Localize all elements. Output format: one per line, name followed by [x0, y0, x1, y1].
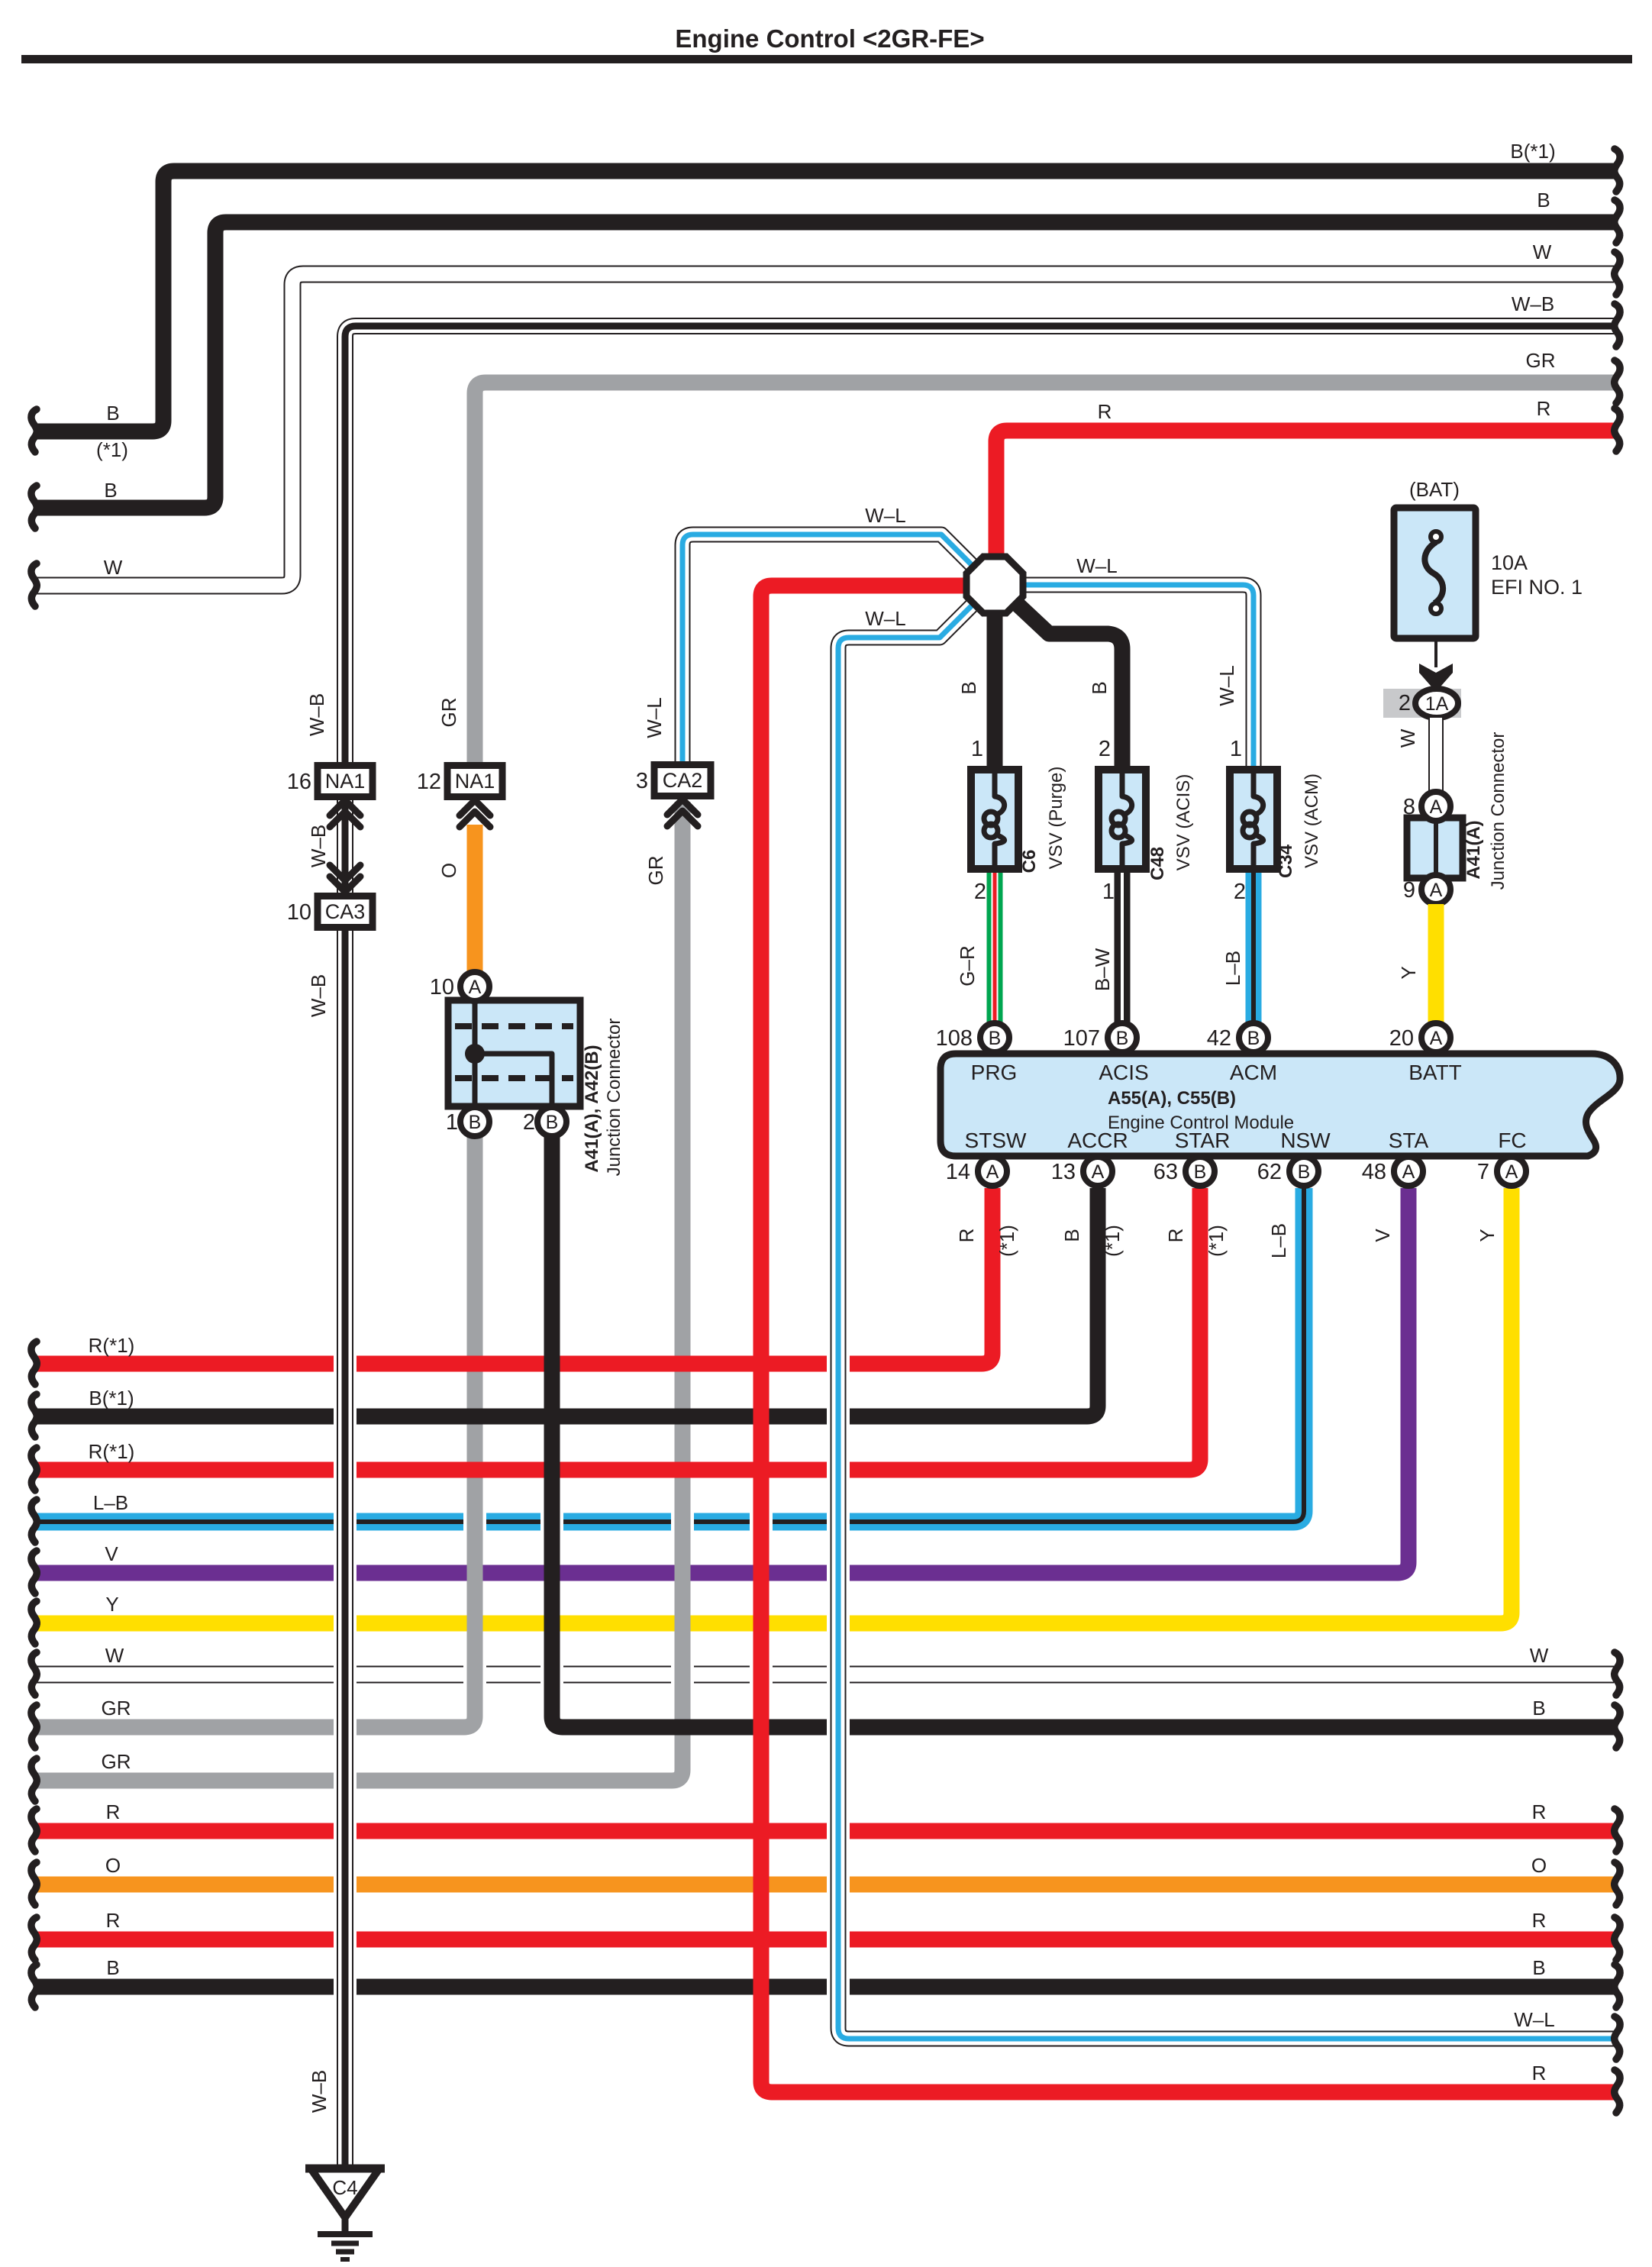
- label R(*1) left 2: [89, 1440, 135, 1463]
- wire R top from right edge into octagon: [996, 431, 1614, 565]
- svg-text:STAR: STAR: [1175, 1129, 1231, 1152]
- svg-text:W–L: W–L: [865, 504, 905, 527]
- label R(*1) left 1: [89, 1334, 135, 1357]
- label A41(A) A42(B) rotated: [582, 1045, 602, 1172]
- connector NA1 pin 12: [447, 766, 502, 797]
- svg-text:NA1: NA1: [455, 770, 495, 793]
- wire W-B from right edge to ground C4: [345, 326, 1614, 2167]
- junction A41 pin 8 circle: [1421, 792, 1450, 821]
- wire G-R from VSV Purge pin 2 to ECM pin 108: [987, 873, 1003, 1027]
- break squiggle right y=2540: [1615, 1917, 1620, 1960]
- junction octagon node: [966, 557, 1023, 613]
- label W left bottom: [105, 1644, 124, 1667]
- label GR right: [1526, 349, 1556, 372]
- svg-text:1: 1: [1102, 880, 1115, 904]
- label R right 1: [1532, 1800, 1547, 1823]
- ECM pin 108 B: [980, 1023, 1009, 1052]
- svg-text:W–L: W–L: [1215, 665, 1238, 706]
- svg-text:ACM: ACM: [1230, 1061, 1277, 1084]
- wire B(*1) from ACCR pin 13 to left edge: [35, 1188, 1098, 1416]
- wire GR from connector CA2 to left edge: [35, 802, 682, 1781]
- wire R full width lower: [35, 1823, 1614, 1839]
- svg-text:16: 16: [287, 770, 311, 794]
- title text: [675, 24, 984, 53]
- label W-B rotated 2: [307, 825, 330, 867]
- label L-B rotated pin62: [1267, 1223, 1290, 1258]
- pin number 107: [1063, 1026, 1100, 1051]
- svg-text:(*1): (*1): [1205, 1225, 1228, 1257]
- label W-L rotated C34: [1215, 665, 1238, 706]
- wire W full width: [35, 1666, 1614, 1684]
- wire B from junction A41 pin 2B to right edge: [552, 1137, 1614, 1727]
- break squiggle right y=2740: [1615, 2070, 1620, 2113]
- wire Y from junction A41 pin 9 to ECM pin 20: [1428, 904, 1444, 1027]
- connector CA3 pin 10: [318, 896, 373, 928]
- svg-text:1: 1: [1230, 737, 1242, 761]
- break squiggle left y=2540: [31, 1917, 37, 1960]
- ground C4: [305, 2169, 385, 2259]
- svg-text:FC: FC: [1498, 1129, 1526, 1152]
- pin number 8: [1403, 795, 1415, 819]
- pin number 42: [1207, 1026, 1231, 1051]
- svg-text:R: R: [1532, 1800, 1547, 1823]
- label B right bottom: [1532, 1697, 1545, 1720]
- svg-text:B: B: [957, 681, 980, 694]
- label B-W rotated: [1091, 948, 1114, 991]
- svg-text:9: 9: [1403, 878, 1415, 903]
- break squiggle left y=665: [31, 486, 37, 528]
- svg-text:W: W: [1530, 1644, 1549, 1667]
- label R rotated pin63: [1164, 1229, 1187, 1243]
- svg-text:C34: C34: [1276, 844, 1296, 878]
- svg-text:2: 2: [974, 880, 986, 904]
- svg-text:W: W: [1396, 728, 1419, 748]
- svg-text:O: O: [437, 863, 460, 878]
- label B(*1) left: [89, 1387, 134, 1410]
- wire B(*1) top: [35, 171, 1614, 431]
- label A41(A) rotated: [1463, 820, 1484, 879]
- break squiggle left y=2398: [31, 1809, 37, 1852]
- svg-text:A: A: [1505, 1161, 1518, 1183]
- svg-text:CA2: CA2: [663, 769, 703, 792]
- label B right 2: [1532, 1956, 1545, 1979]
- svg-text:63: 63: [1153, 1160, 1178, 1184]
- svg-text:62: 62: [1257, 1160, 1282, 1184]
- label GR rotated top: [437, 698, 460, 728]
- ECM label NSW: [1280, 1129, 1331, 1152]
- wire R full width bottom: [35, 1932, 1614, 1948]
- svg-text:W–L: W–L: [643, 697, 666, 738]
- svg-text:W–B: W–B: [308, 2070, 331, 2113]
- svg-text:R: R: [106, 1800, 121, 1823]
- label C48 rotated: [1147, 847, 1168, 880]
- svg-text:B: B: [106, 402, 119, 425]
- white casing at GR CA2 wire crossings: [671, 1510, 694, 1687]
- wire B full width bottom: [35, 1979, 1614, 1995]
- pin number 1 A41: [446, 1110, 458, 1135]
- svg-text:A55(A), C55(B): A55(A), C55(B): [1108, 1088, 1236, 1109]
- label (*1) rotated pin13: [1101, 1225, 1124, 1257]
- svg-text:B: B: [1088, 681, 1111, 694]
- svg-text:A: A: [1092, 1161, 1105, 1183]
- svg-text:A: A: [1430, 1028, 1443, 1049]
- svg-text:14: 14: [946, 1160, 970, 1184]
- svg-text:W: W: [1533, 241, 1552, 263]
- svg-text:1A: 1A: [1425, 693, 1449, 715]
- svg-text:W–B: W–B: [307, 825, 330, 867]
- label C6 rotated: [1019, 850, 1040, 874]
- break squiggle right y=291: [1615, 200, 1620, 243]
- svg-text:B: B: [1060, 1229, 1083, 1242]
- break squiggle left y=1993: [31, 1500, 37, 1542]
- junction A41 pin 9 circle: [1421, 875, 1450, 904]
- VSV C6 pin 1 number: [971, 737, 983, 761]
- ECM name A55(A), C55(B): [1108, 1088, 1236, 1109]
- label R mid top: [1098, 400, 1112, 423]
- pin number 9: [1403, 878, 1415, 903]
- wire R from octagon junction to bottom right edge: [761, 586, 1614, 2092]
- svg-text:V: V: [1371, 1229, 1394, 1242]
- svg-text:A: A: [1430, 880, 1443, 901]
- svg-text:8: 8: [1403, 795, 1415, 819]
- svg-text:B: B: [1298, 1161, 1311, 1183]
- wire L-B from NSW pin 62 to left edge: [35, 1188, 1304, 1522]
- svg-text:B: B: [1194, 1161, 1207, 1183]
- svg-text:A: A: [469, 977, 482, 998]
- VSV C34 pin 1 number: [1230, 737, 1242, 761]
- break squiggle right y=2670: [1615, 2017, 1620, 2059]
- wire Y from FC pin 7 to left edge: [35, 1188, 1512, 1623]
- label W-B rotated 3: [307, 974, 330, 1017]
- label R right bottom: [1532, 2062, 1547, 2085]
- wire R(*1) from STAR pin 63 to left edge: [35, 1188, 1200, 1470]
- fuse 10A EFI NO.1: [1394, 508, 1476, 638]
- ECM label STSW: [965, 1129, 1027, 1152]
- svg-text:L–B: L–B: [1221, 951, 1244, 986]
- svg-text:B: B: [469, 1112, 482, 1133]
- svg-text:Engine Control <2GR-FE>: Engine Control <2GR-FE>: [675, 24, 984, 53]
- label Y rotated pin7: [1476, 1229, 1499, 1242]
- svg-text:R: R: [1537, 397, 1551, 420]
- ECM name Engine Control Module: [1108, 1113, 1294, 1133]
- svg-text:R: R: [1532, 2062, 1547, 2085]
- label W-L lower: [865, 607, 905, 630]
- svg-text:W: W: [104, 556, 123, 579]
- ECM label ACCR: [1067, 1129, 1128, 1152]
- break squiggle left y=1786: [31, 1342, 37, 1384]
- ECM pin 7 A: [1497, 1157, 1526, 1186]
- label W-B right: [1512, 292, 1554, 315]
- svg-text:48: 48: [1362, 1160, 1386, 1184]
- ECM label FC: [1498, 1129, 1526, 1152]
- svg-text:B(*1): B(*1): [89, 1387, 134, 1410]
- label GR left 2: [102, 1750, 131, 1773]
- pin number 7: [1477, 1160, 1489, 1184]
- chevron arrow below NA1 16: [330, 800, 360, 827]
- pin number 10 A41: [430, 975, 454, 999]
- break squiggle left y=1855: [31, 1394, 37, 1437]
- svg-text:BATT: BATT: [1408, 1061, 1461, 1084]
- svg-text:A41(A), A42(B): A41(A), A42(B): [582, 1045, 602, 1172]
- label W-L right of octagon: [1076, 554, 1117, 577]
- svg-text:Y: Y: [105, 1593, 118, 1616]
- VSV (Purge) C6: [971, 770, 1018, 869]
- pin number 13: [1051, 1160, 1076, 1184]
- svg-text:B–W: B–W: [1091, 948, 1114, 991]
- ECM pin 42 B: [1239, 1023, 1268, 1052]
- svg-text:W: W: [105, 1644, 124, 1667]
- VSV (ACM) C34: [1230, 770, 1277, 869]
- svg-text:2: 2: [523, 1110, 535, 1135]
- label W left: [104, 556, 123, 579]
- wire W from connector 1A to junction A41 pin 8: [1428, 718, 1444, 792]
- VSV C48 pin 2 number: [1099, 737, 1111, 761]
- ECM label ACIS: [1099, 1061, 1148, 1084]
- label B left 2: [104, 479, 117, 502]
- svg-text:12: 12: [417, 770, 441, 794]
- svg-text:W–B: W–B: [307, 974, 330, 1017]
- wire O from junction A41 pin 10A to NA1 12: [467, 825, 483, 972]
- svg-text:O: O: [105, 1854, 121, 1877]
- label W right: [1533, 241, 1552, 263]
- label EFI NO. 1: [1491, 576, 1583, 599]
- svg-text:STA: STA: [1389, 1129, 1429, 1152]
- svg-text:13: 13: [1051, 1160, 1076, 1184]
- wire B from octagon to VSV ACIS pin 2: [1013, 600, 1122, 767]
- svg-text:Y: Y: [1397, 966, 1420, 979]
- ECM label ACM: [1230, 1061, 1277, 1084]
- break squiggle right y=501: [1615, 360, 1620, 403]
- label Y left: [105, 1593, 118, 1616]
- label GR rotated CA2: [644, 856, 667, 886]
- label W-L rotated: [643, 697, 666, 738]
- pin number 63: [1153, 1160, 1178, 1184]
- VSV C48 pin 1 number: [1102, 880, 1115, 904]
- label R right: [1537, 397, 1551, 420]
- break squiggle left y=2262: [31, 1705, 37, 1748]
- svg-text:W–L: W–L: [1076, 554, 1117, 577]
- break squiggle right y=2602: [1615, 1965, 1620, 2007]
- label R rotated pin14: [955, 1229, 978, 1243]
- svg-text:108: 108: [936, 1026, 973, 1051]
- wire B from octagon to VSV Purge pin 1: [987, 603, 1003, 767]
- label GR left 1: [102, 1697, 131, 1720]
- pin number 16: [287, 770, 311, 794]
- svg-text:VSV (Purge): VSV (Purge): [1046, 767, 1066, 870]
- label VSV (ACM) rotated: [1302, 773, 1322, 868]
- svg-text:2: 2: [1099, 737, 1111, 761]
- pin number 2 1A: [1399, 691, 1411, 715]
- label W-L right bottom: [1514, 2008, 1554, 2031]
- white casing at B junction wire crossings: [540, 1510, 563, 1687]
- svg-text:W–B: W–B: [1512, 292, 1554, 315]
- break squiggle left y=2126: [31, 1601, 37, 1644]
- svg-text:GR: GR: [1526, 349, 1556, 372]
- svg-text:A: A: [1430, 796, 1443, 818]
- svg-text:R: R: [106, 1909, 121, 1932]
- svg-text:(BAT): (BAT): [1409, 478, 1460, 501]
- break squiggle right y=2262: [1615, 1705, 1620, 1748]
- junction pin 10 A circle: [460, 972, 489, 1001]
- label W right bottom: [1530, 1644, 1549, 1667]
- label B rotated pin13: [1060, 1229, 1083, 1242]
- svg-text:STSW: STSW: [965, 1129, 1027, 1152]
- wire W-L from octagon to VSV ACM pin 1: [1020, 585, 1254, 767]
- ECM A55(A),C55(B) box: [941, 1054, 1620, 1156]
- label O right: [1531, 1854, 1547, 1877]
- label VSV (Purge) rotated: [1046, 767, 1066, 870]
- svg-text:C6: C6: [1019, 850, 1040, 874]
- svg-text:W–B: W–B: [305, 693, 328, 736]
- svg-text:R: R: [1164, 1229, 1187, 1243]
- svg-text:Junction Connector: Junction Connector: [1488, 732, 1508, 890]
- break squiggle right y=2468: [1615, 1862, 1620, 1905]
- label 10A: [1491, 551, 1528, 574]
- svg-text:O: O: [1531, 1854, 1547, 1877]
- chevron arrow below NA1 12: [460, 800, 490, 827]
- label (*1) rotated pin14: [995, 1225, 1018, 1257]
- svg-text:R(*1): R(*1): [89, 1440, 135, 1463]
- VSV C34 pin 2 number: [1234, 880, 1246, 904]
- label O rotated: [437, 863, 460, 878]
- label Y rotated: [1397, 966, 1420, 979]
- svg-text:10: 10: [430, 975, 454, 999]
- pin number 14: [946, 1160, 970, 1184]
- break squiggle right y=564: [1615, 409, 1620, 451]
- svg-text:B: B: [1532, 1697, 1545, 1720]
- svg-text:R(*1): R(*1): [89, 1334, 135, 1357]
- label V left: [105, 1542, 118, 1565]
- label Junction Connector rotated: [604, 1019, 624, 1177]
- wire O full width: [35, 1877, 1614, 1893]
- break squiggle right y=427: [1615, 304, 1620, 347]
- wire GR from junction A41 pin 1B to left edge: [35, 1137, 475, 1727]
- svg-text:20: 20: [1389, 1026, 1414, 1051]
- wire R(*1) from STSW pin 14 to left edge: [35, 1188, 992, 1364]
- ECM pin 63 B: [1186, 1157, 1215, 1186]
- ECM label STA: [1389, 1129, 1429, 1152]
- chevron arrow below CA2 3: [667, 799, 698, 826]
- svg-text:R: R: [955, 1229, 978, 1243]
- ECM label STAR: [1175, 1129, 1231, 1152]
- svg-text:B: B: [104, 479, 117, 502]
- pin number 3 CA2: [636, 769, 648, 793]
- label (BAT): [1409, 478, 1460, 501]
- break squiggle left y=767: [31, 564, 37, 606]
- svg-text:NA1: NA1: [325, 770, 366, 793]
- break squiggle right y=2193: [1615, 1652, 1620, 1695]
- svg-text:C4: C4: [332, 2176, 357, 2199]
- svg-text:10: 10: [287, 900, 311, 925]
- label L-B left: [93, 1491, 128, 1514]
- break squiggle right y=359: [1615, 252, 1620, 295]
- break squiggle left y=1925: [31, 1448, 37, 1490]
- svg-text:VSV (ACM): VSV (ACM): [1302, 773, 1322, 868]
- svg-text:GR: GR: [102, 1697, 131, 1720]
- break squiggle left y=2193: [31, 1652, 37, 1695]
- svg-text:B: B: [1247, 1028, 1260, 1049]
- svg-text:W–L: W–L: [865, 607, 905, 630]
- break squiggle left y=2602: [31, 1965, 37, 2007]
- svg-text:PRG: PRG: [971, 1061, 1018, 1084]
- wire W-L from octagon to bottom right edge: [838, 603, 1614, 2039]
- svg-text:G–R: G–R: [956, 945, 979, 986]
- svg-text:B: B: [989, 1028, 1002, 1049]
- svg-text:VSV (ACIS): VSV (ACIS): [1173, 774, 1194, 871]
- label B rotated C6: [957, 681, 980, 694]
- svg-text:V: V: [105, 1542, 118, 1565]
- label W-L upper: [865, 504, 905, 527]
- svg-text:(*1): (*1): [96, 438, 128, 461]
- ECM pin 14 A: [978, 1157, 1007, 1186]
- break squiggle left y=565: [31, 409, 37, 452]
- label (*1) rotated pin63: [1205, 1225, 1228, 1257]
- junction connector A41(A) box: [1407, 818, 1463, 878]
- label R right 2: [1532, 1909, 1547, 1932]
- svg-text:B: B: [1116, 1028, 1129, 1049]
- white casing at GR junction wire crossings: [463, 1510, 486, 1687]
- svg-text:C48: C48: [1147, 847, 1168, 880]
- label W-B rotated 1: [305, 693, 328, 736]
- svg-text:(*1): (*1): [995, 1225, 1018, 1257]
- svg-text:2: 2: [1234, 880, 1246, 904]
- svg-text:10A: 10A: [1491, 551, 1528, 574]
- label R left 2: [106, 1909, 121, 1932]
- svg-text:R: R: [1098, 400, 1112, 423]
- label B right: [1537, 189, 1550, 212]
- label W-B rotated ground: [308, 2070, 331, 2113]
- svg-text:L–B: L–B: [1267, 1223, 1290, 1258]
- pin number 2 A41: [523, 1110, 535, 1135]
- svg-text:3: 3: [636, 769, 648, 793]
- svg-text:2: 2: [1399, 691, 1411, 715]
- ECM label BATT: [1408, 1061, 1461, 1084]
- svg-text:ACCR: ACCR: [1067, 1129, 1128, 1152]
- svg-text:R: R: [1532, 1909, 1547, 1932]
- chevron arrow above CA3 10: [330, 865, 360, 892]
- label O left: [105, 1854, 121, 1877]
- svg-text:A: A: [1402, 1161, 1415, 1183]
- svg-text:B(*1): B(*1): [1510, 140, 1555, 163]
- break squiggle right y=2398: [1615, 1809, 1620, 1852]
- label B rotated C48: [1088, 681, 1111, 694]
- svg-text:CA3: CA3: [325, 900, 366, 923]
- wire B top: [35, 222, 1614, 508]
- svg-text:EFI NO. 1: EFI NO. 1: [1491, 576, 1583, 599]
- label L-B rotated: [1221, 951, 1244, 986]
- svg-text:Y: Y: [1476, 1229, 1499, 1242]
- svg-text:GR: GR: [644, 856, 667, 886]
- svg-text:A41(A): A41(A): [1463, 820, 1484, 879]
- VSV C6 pin 2 number: [974, 880, 986, 904]
- label W rotated fuse: [1396, 728, 1419, 748]
- svg-text:1: 1: [446, 1110, 458, 1135]
- white casing at R main wire crossings: [750, 1510, 773, 1687]
- ECM pin 62 B: [1289, 1157, 1318, 1186]
- pin number 20: [1389, 1026, 1414, 1051]
- ECM label PRG: [971, 1061, 1018, 1084]
- svg-text:1: 1: [971, 737, 983, 761]
- label B(*1) right: [1510, 140, 1555, 163]
- pin number 10 CA3: [287, 900, 311, 925]
- svg-text:(*1): (*1): [1101, 1225, 1124, 1257]
- break squiggle left y=2060: [31, 1551, 37, 1594]
- ECM pin 107 B: [1108, 1023, 1137, 1052]
- svg-text:W–L: W–L: [1514, 2008, 1554, 2031]
- label VSV (ACIS) rotated: [1173, 774, 1194, 871]
- svg-text:B: B: [546, 1112, 559, 1133]
- label G-R rotated: [956, 945, 979, 986]
